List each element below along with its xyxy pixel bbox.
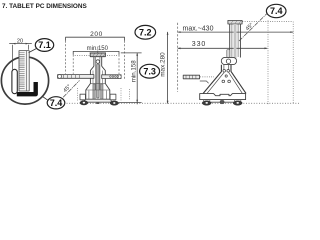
dotted clamp lip line [75, 54, 118, 56]
dim min.150 dashed extensions [73, 55, 119, 74]
left wheel [204, 100, 210, 101]
svg-text:330: 330 [192, 41, 206, 48]
A-frame legs [203, 65, 246, 94]
callout 7.1 leader [29, 49, 37, 53]
top cap (holder) [228, 20, 242, 24]
axle line [211, 101, 234, 103]
rack bar [19, 51, 29, 91]
pole clevis [221, 57, 236, 64]
callout 7.4 bottom [47, 97, 65, 109]
svg-text:7.1: 7.1 [38, 40, 51, 50]
dim min.158 vertical [118, 53, 141, 104]
dotted top level line [242, 21, 292, 23]
left caster roller [80, 101, 88, 105]
callout 7.2 [135, 25, 156, 39]
right wheel [235, 100, 241, 101]
callout 7.4 bottom leader [42, 96, 48, 100]
column [94, 57, 102, 98]
pole [230, 24, 241, 60]
pole side knob [227, 50, 230, 58]
inner spring bars [93, 84, 95, 99]
dim 20 extension lines [13, 45, 29, 70]
clamp lever bar [12, 69, 17, 93]
dim max.280 vertical line [159, 32, 168, 104]
svg-text:min.158: min.158 [131, 60, 138, 83]
J hook black L [17, 82, 36, 94]
45 deg label left [63, 81, 79, 98]
strut holes [222, 70, 230, 83]
column centerline [97, 47, 99, 53]
callout 7.3 [140, 64, 160, 78]
right caster roller [110, 101, 118, 105]
svg-text:7.2: 7.2 [139, 28, 152, 38]
dashed reference vertical [177, 23, 179, 92]
tablet dotted edge vertical (max position) [292, 22, 294, 103]
svg-text:7.4: 7.4 [50, 98, 63, 108]
column shoulders and wings [86, 66, 110, 99]
callout 7.1 [35, 39, 53, 52]
dim min.150 line [73, 51, 119, 54]
caster centerlines [78, 88, 130, 101]
callout 7.4 top [266, 4, 286, 17]
left arm [58, 75, 94, 79]
svg-text:7. TABLET PC DIMENSIONS: 7. TABLET PC DIMENSIONS [2, 3, 87, 10]
svg-text:7.3: 7.3 [143, 66, 156, 76]
45 deg label right [239, 13, 267, 41]
right arm [102, 75, 122, 79]
clamp top bar [90, 53, 106, 57]
dim 330 [178, 41, 268, 49]
side arm dotted continuation [200, 76, 214, 78]
center caster [220, 100, 224, 103]
dim 200 dashed extensions [66, 41, 125, 79]
dim 200 line [66, 37, 125, 41]
ground dotted line [64, 102, 300, 104]
svg-text:7.4: 7.4 [270, 6, 283, 16]
right caster bracket [110, 94, 116, 100]
side arm [183, 75, 199, 79]
dim max.~430 [178, 26, 294, 33]
left leg shelf line [200, 81, 209, 83]
detail circle [1, 57, 48, 104]
base bar [200, 94, 246, 100]
base plate [85, 99, 112, 102]
svg-text:max.~430: max.~430 [183, 26, 214, 33]
dim 20 line [9, 43, 32, 45]
left caster bracket [80, 94, 85, 100]
tablet dotted edge vertical (330 position) [267, 21, 269, 106]
base box lines [86, 90, 110, 99]
svg-text:max.280: max.280 [159, 52, 166, 77]
wing inner lines [93, 71, 103, 84]
